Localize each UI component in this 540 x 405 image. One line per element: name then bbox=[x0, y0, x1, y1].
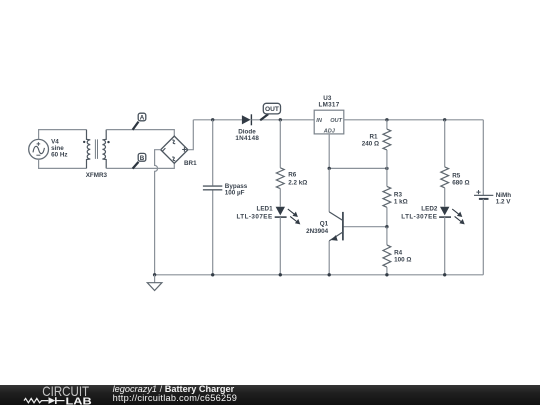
svg-text:1 kΩ: 1 kΩ bbox=[394, 198, 408, 205]
svg-text:XFMR3: XFMR3 bbox=[86, 172, 108, 179]
wire top rail U3 to battery bbox=[344, 119, 484, 121]
node A bbox=[133, 113, 146, 130]
CircuitLab logo bbox=[0, 385, 100, 405]
wire top rail diode to U3 bbox=[251, 119, 314, 121]
wire U3 ADJ down bbox=[328, 134, 330, 169]
svg-text:LTL-307EE: LTL-307EE bbox=[236, 213, 272, 220]
R4 label bbox=[394, 249, 411, 263]
node junction ground bbox=[153, 273, 156, 276]
node B bbox=[133, 153, 146, 168]
svg-text:R4: R4 bbox=[394, 249, 403, 256]
svg-text:R6: R6 bbox=[288, 172, 297, 179]
svg-text:OUT: OUT bbox=[330, 118, 342, 124]
resistor R4 bbox=[383, 227, 391, 275]
resistor R5 bbox=[441, 120, 449, 207]
wire bridge plus to top rail bbox=[188, 120, 193, 150]
node junction R4 bottom bbox=[385, 273, 388, 276]
Q1 label bbox=[306, 220, 329, 235]
Diode label bbox=[235, 128, 259, 142]
svg-text:BR1: BR1 bbox=[184, 160, 197, 167]
U3 label bbox=[318, 95, 339, 109]
footer bar bbox=[0, 385, 540, 405]
node junction R1 branch bbox=[385, 118, 388, 121]
transformer XFMR3 bbox=[87, 130, 107, 169]
diode D 1N4148 bbox=[242, 114, 252, 125]
svg-text:LAB: LAB bbox=[66, 396, 93, 405]
wire ADJ horizontal bbox=[329, 167, 387, 169]
wire base horizontal bbox=[343, 226, 387, 228]
LED1 bbox=[275, 207, 301, 275]
node OUT bbox=[260, 103, 280, 120]
node junction ADJ bbox=[328, 167, 331, 170]
battery label bbox=[496, 192, 512, 206]
wire primary loop bbox=[39, 130, 87, 169]
svg-text:Q1: Q1 bbox=[320, 220, 329, 227]
node junction Q1 emitter bottom bbox=[328, 273, 331, 276]
bridge rectifier BR1 bbox=[161, 136, 188, 163]
wire secondary top to bridge bbox=[106, 130, 174, 137]
node junction R3-R4-base bbox=[385, 225, 388, 228]
node junction R6 branch bbox=[279, 118, 282, 121]
svg-text:LM317: LM317 bbox=[318, 101, 339, 108]
svg-text:B: B bbox=[140, 155, 145, 162]
R5 label bbox=[452, 173, 469, 187]
LED1 label bbox=[236, 206, 273, 221]
LED2 bbox=[439, 207, 465, 275]
svg-text:680 Ω: 680 Ω bbox=[452, 180, 469, 187]
capacitor Bypass 100uF bbox=[203, 120, 222, 275]
svg-text:LED2: LED2 bbox=[421, 206, 438, 213]
wire top rail left segment bbox=[193, 119, 242, 121]
wire secondary bottom to bridge bbox=[106, 163, 174, 168]
svg-text:LTL-307EE: LTL-307EE bbox=[401, 213, 437, 220]
op-amp U3 LM317 regulator bbox=[314, 110, 344, 134]
svg-text:ADJ: ADJ bbox=[323, 129, 336, 135]
svg-text:60 Hz: 60 Hz bbox=[51, 152, 67, 159]
node junction cap bottom bbox=[211, 273, 214, 276]
svg-text:IN: IN bbox=[316, 118, 323, 124]
LED2 label bbox=[401, 206, 438, 221]
svg-text:OUT: OUT bbox=[265, 106, 279, 113]
battery NiMh bbox=[474, 120, 493, 275]
resistor R6 bbox=[276, 120, 284, 207]
ground bbox=[147, 275, 162, 291]
node junction R1-R3 bbox=[385, 167, 388, 170]
voltage source V4 bbox=[29, 139, 49, 159]
node junction LED2 bottom bbox=[443, 273, 446, 276]
R6 label bbox=[288, 172, 307, 187]
svg-text:A: A bbox=[140, 115, 145, 122]
resistor R1 bbox=[383, 120, 391, 169]
node junction cap branch bbox=[211, 118, 214, 121]
Bypass label bbox=[225, 183, 248, 197]
node junction LED1 bottom bbox=[279, 273, 282, 276]
R3 label bbox=[394, 192, 408, 206]
svg-text:2N3904: 2N3904 bbox=[306, 228, 329, 235]
footer url text bbox=[113, 394, 238, 403]
wire bridge minus to ground rail with hop bbox=[155, 150, 161, 275]
svg-text:100 Ω: 100 Ω bbox=[394, 257, 411, 264]
svg-text:2.2 kΩ: 2.2 kΩ bbox=[288, 180, 307, 187]
svg-text:1N4148: 1N4148 bbox=[235, 135, 259, 142]
svg-text:240 Ω: 240 Ω bbox=[362, 140, 379, 147]
transistor Q1 2N3904 bbox=[329, 168, 343, 274]
node junction R5 branch bbox=[443, 118, 446, 121]
R1 label bbox=[362, 133, 379, 147]
svg-text:LED1: LED1 bbox=[256, 206, 273, 213]
footer title text bbox=[113, 385, 235, 394]
transformer phase dots bbox=[83, 141, 85, 143]
resistor R3 bbox=[383, 168, 391, 226]
V4 value label bbox=[51, 139, 67, 159]
svg-text:1.2 V: 1.2 V bbox=[496, 198, 512, 205]
wire bottom rail bbox=[155, 274, 484, 276]
svg-text:100 µF: 100 µF bbox=[225, 189, 245, 196]
